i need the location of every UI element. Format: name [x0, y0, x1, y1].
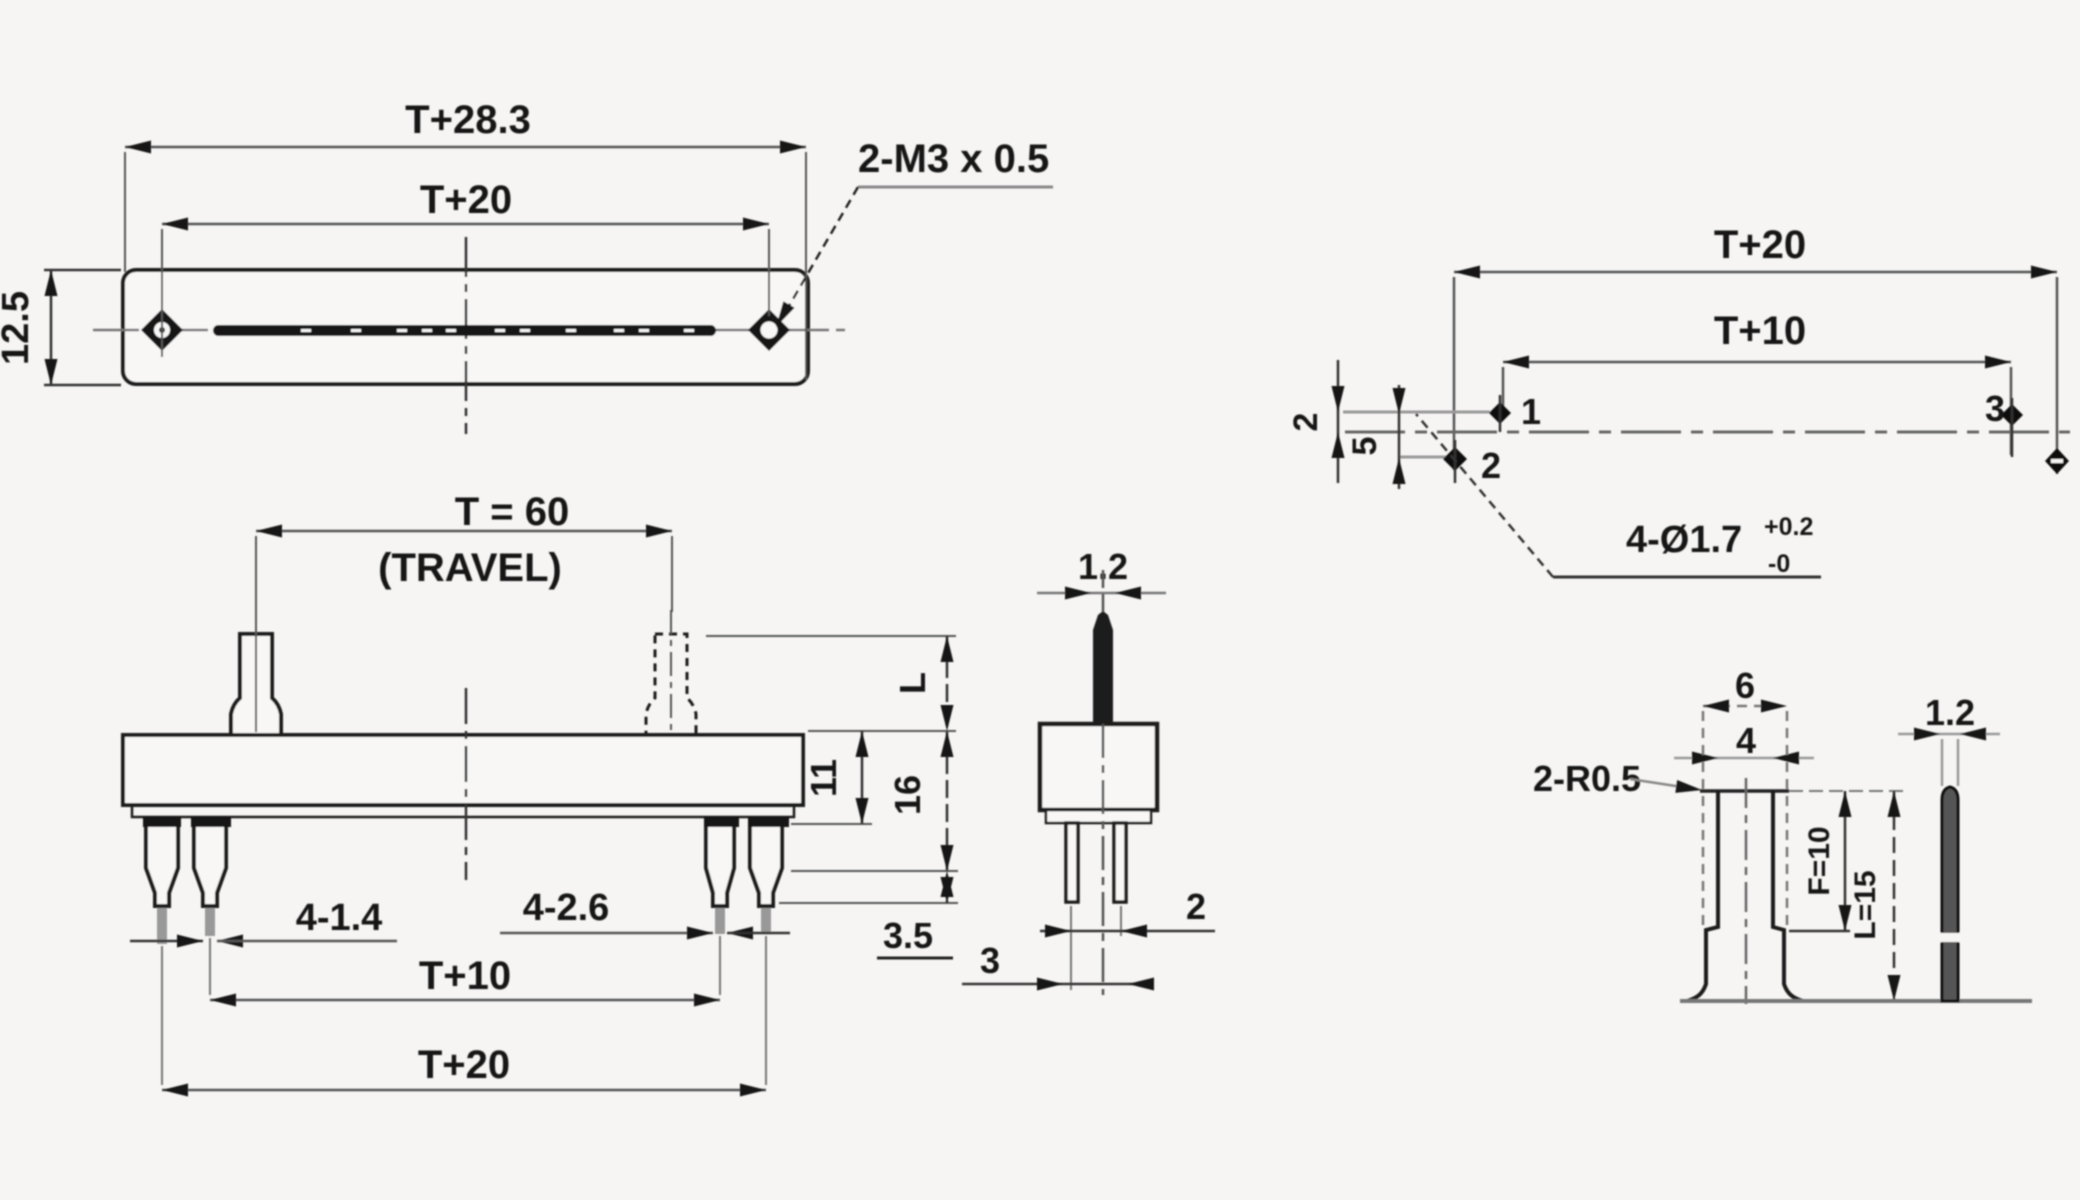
centerline [1745, 778, 1748, 1004]
dimension T+10 [1503, 309, 2011, 369]
extension lines to lower dims [161, 946, 163, 1085]
hole 1 [1489, 402, 1511, 424]
pin tabs [143, 817, 181, 827]
dimension L=15 [1849, 791, 1901, 1001]
svg-text:L=15: L=15 [1849, 870, 1882, 939]
horizontal centerline [93, 329, 850, 332]
left offset dimension 5 [1346, 385, 1406, 489]
right mounting hole [748, 309, 790, 351]
svg-text:16: 16 [887, 775, 928, 815]
dimension 12.5 [0, 270, 121, 385]
svg-text:5: 5 [1346, 437, 1384, 456]
vertical centerline [465, 237, 468, 434]
svg-text:L: L [892, 672, 933, 694]
dimension T+20 [1454, 223, 2057, 279]
slot [213, 325, 716, 336]
svg-text:2-M3 x 0.5: 2-M3 x 0.5 [858, 137, 1049, 181]
lever outer hidden edges [1702, 711, 1705, 927]
pin 4 [750, 827, 782, 906]
svg-text:1.2: 1.2 [1925, 692, 1975, 733]
svg-text:11: 11 [803, 759, 844, 797]
section body [1040, 724, 1157, 810]
svg-text:4: 4 [1736, 720, 1756, 761]
lever top edge [1700, 789, 1789, 793]
pin extension lines [1070, 906, 1072, 990]
svg-text:4-1.4: 4-1.4 [296, 897, 383, 939]
top view body outline [123, 270, 808, 384]
svg-text:3.5: 3.5 [883, 915, 933, 956]
pin 2 [194, 827, 226, 906]
svg-text:(TRAVEL): (TRAVEL) [378, 546, 562, 590]
section lip [1046, 810, 1151, 823]
section pin right [1114, 823, 1126, 902]
extension lines [1453, 277, 1456, 470]
section pin left [1066, 823, 1078, 902]
pin side body [1942, 787, 1958, 1001]
svg-text:T+20: T+20 [418, 1043, 510, 1087]
dimension T=60 travel [256, 490, 672, 732]
svg-text:2: 2 [1481, 445, 1501, 486]
svg-text:2-R0.5: 2-R0.5 [1533, 758, 1641, 799]
pin extension stubs [157, 908, 167, 944]
svg-text:2: 2 [1186, 886, 1206, 927]
dimension F=10 [1803, 791, 1852, 931]
dimension 4 [1674, 720, 1814, 765]
ground line [1680, 999, 2032, 1003]
right lever (dashed phantom) [646, 634, 696, 735]
dimension 6 [1703, 665, 1787, 713]
label 4-dia 1.7 [1416, 414, 1821, 578]
dimension 4-1.4 [130, 897, 397, 948]
lever bar [1093, 611, 1113, 724]
dimension 2 [1040, 886, 1215, 938]
svg-text:4-Ø1.7: 4-Ø1.7 [1626, 519, 1742, 561]
vertical centerline [465, 688, 468, 880]
svg-text:-0: -0 [1768, 550, 1790, 578]
dimension L / 16 / 3.5 chain [877, 636, 954, 958]
left lever (solid) [231, 634, 281, 735]
hole 3' diamond [2045, 448, 2069, 474]
svg-text:3: 3 [1985, 388, 2005, 429]
svg-text:2: 2 [1287, 413, 1325, 432]
dimension 11 [803, 731, 869, 824]
pin 3 [706, 827, 734, 906]
svg-text:4-2.6: 4-2.6 [523, 887, 610, 929]
top extension line [1789, 790, 1907, 792]
left mounting hole [141, 303, 183, 357]
svg-text:+0.2: +0.2 [1764, 513, 1813, 541]
lever left profile [1687, 791, 1718, 1001]
svg-text:T+28.3: T+28.3 [405, 98, 531, 142]
F=10 bottom extension [1789, 930, 1850, 933]
svg-text:12.5: 12.5 [0, 291, 37, 365]
dimension T+20 [162, 178, 769, 316]
label 2-M3 x 0.5 [770, 137, 1053, 330]
dimension 4-2.6 [500, 887, 790, 940]
svg-text:T+20: T+20 [420, 178, 512, 222]
dimension T+20 [162, 1043, 766, 1097]
label 2-R0.5 [1533, 758, 1703, 799]
svg-text:T+20: T+20 [1714, 223, 1806, 267]
dimension T+28.3 [125, 98, 806, 380]
svg-text:T+10: T+10 [1714, 309, 1806, 353]
dimension 3 [962, 940, 1154, 991]
bottom lip [132, 805, 794, 817]
left offset dimension 2 [1287, 360, 1345, 483]
centerline [1102, 570, 1105, 612]
right side extension lines [706, 635, 956, 637]
front body outline [123, 735, 803, 805]
dimension 1.2 [1037, 546, 1166, 600]
centerline [1345, 431, 2070, 434]
slot centerline white dashes [301, 329, 694, 332]
hole 2 [1443, 447, 1467, 471]
pin 1 [146, 827, 178, 906]
svg-text:T = 60: T = 60 [455, 490, 570, 534]
lever right profile [1773, 791, 1803, 1001]
pin side view: dimension 1.2 [1898, 692, 2000, 741]
svg-text:3: 3 [980, 940, 1000, 981]
pin hidden edges above [1941, 739, 1944, 786]
row reference lines [1343, 411, 1490, 414]
hole 3 [2001, 404, 2023, 426]
svg-text:T+10: T+10 [419, 954, 511, 998]
svg-text:6: 6 [1735, 665, 1755, 706]
svg-text:1: 1 [1521, 391, 1541, 432]
dimension T+10 [210, 954, 720, 1007]
svg-text:F=10: F=10 [1803, 826, 1836, 895]
